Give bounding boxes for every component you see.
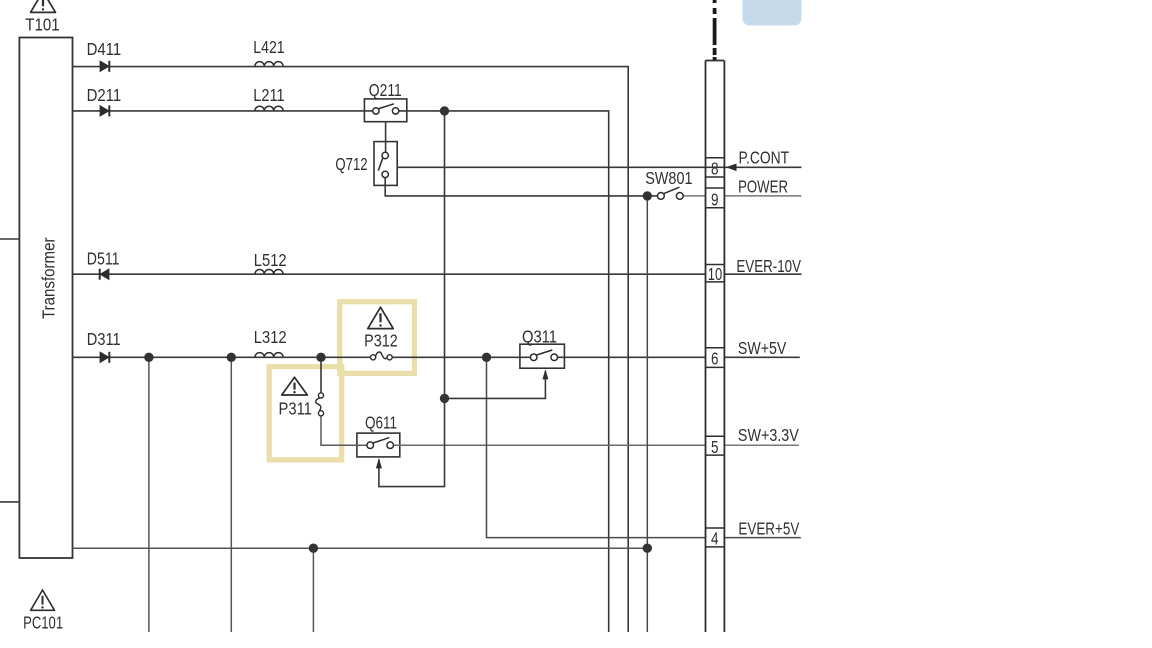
wire Q611 out to pin 5 bbox=[394, 444, 706, 446]
svg-text:4: 4 bbox=[711, 528, 719, 548]
svg-text:D211: D211 bbox=[87, 85, 122, 105]
pin 6 box bbox=[706, 347, 725, 349]
svg-text:10: 10 bbox=[708, 264, 723, 284]
svg-text:EVER+5V: EVER+5V bbox=[738, 519, 799, 539]
wire transformer bottom row bbox=[73, 547, 648, 549]
svg-text:8: 8 bbox=[711, 159, 719, 179]
inductor L421 bbox=[255, 62, 283, 67]
svg-text:P312: P312 bbox=[364, 330, 398, 350]
wire vertical below EVER+5V node bbox=[312, 548, 314, 632]
connector column bbox=[706, 61, 725, 633]
svg-text:L312: L312 bbox=[254, 327, 287, 347]
svg-text:SW801: SW801 bbox=[645, 168, 692, 188]
svg-text:POWER: POWER bbox=[738, 176, 788, 196]
wire Q311 out to pin 6 bbox=[557, 356, 705, 358]
arrow into Q311 bbox=[542, 369, 548, 379]
wire P311 elbow to Q611 bbox=[321, 416, 367, 445]
svg-text:Q712: Q712 bbox=[335, 154, 367, 174]
warning triangle above T101 bbox=[31, 0, 56, 12]
svg-text:PC101: PC101 bbox=[23, 612, 63, 632]
switch SW801 bbox=[658, 187, 684, 199]
switch contacts Q211 bbox=[373, 104, 399, 114]
junction dot SW+5V node bbox=[482, 353, 491, 362]
Q611 box bbox=[357, 433, 400, 457]
wire branch to Q311 gate bbox=[445, 371, 546, 398]
warning triangle PC101 bbox=[31, 590, 55, 610]
highlight box P312 bbox=[340, 302, 415, 374]
svg-text:P311: P311 bbox=[279, 398, 312, 418]
diode D211 bbox=[100, 105, 109, 116]
switch contacts Q611 bbox=[367, 438, 394, 449]
junction dot SW801 node bbox=[643, 191, 652, 200]
diode D311 bbox=[100, 352, 109, 363]
dashed bus above connector bbox=[713, 0, 717, 60]
diode D411 bbox=[100, 61, 109, 72]
wire SW801 to pin 9 bbox=[683, 195, 705, 197]
wire control bus from Q211 node down to Q611 gate bbox=[379, 111, 445, 487]
svg-text:L421: L421 bbox=[253, 37, 284, 57]
junction dot Q211 output node bbox=[440, 106, 449, 115]
arrow into Q611 bbox=[376, 458, 382, 468]
switch contacts Q712 bbox=[378, 152, 388, 177]
junction dot after L312 bbox=[316, 353, 325, 362]
wire vertical from D311 node A bbox=[148, 357, 150, 632]
wire SW+5V right of pin 6 bbox=[724, 356, 799, 358]
pin 9 box bbox=[706, 187, 725, 189]
wire left stub upper bbox=[0, 238, 19, 240]
transformer T101 body bbox=[19, 38, 72, 559]
wire vertical from D311 node B bbox=[230, 357, 232, 632]
highlight box P311 bbox=[269, 367, 342, 460]
svg-text:Q611: Q611 bbox=[365, 413, 397, 433]
junction dot node A bbox=[144, 353, 153, 362]
svg-text:Q211: Q211 bbox=[369, 80, 402, 100]
switch contacts Q311 bbox=[530, 350, 557, 361]
Q712 box bbox=[374, 142, 397, 186]
wire Q712 bottom elbow to SW801 bbox=[385, 178, 657, 196]
pin 8 box bbox=[706, 158, 725, 547]
svg-text:Q311: Q311 bbox=[522, 327, 557, 347]
wire fuse P312 to Q311 bbox=[392, 356, 530, 358]
svg-text:D311: D311 bbox=[87, 329, 121, 349]
svg-text:EVER-10V: EVER-10V bbox=[736, 256, 801, 276]
wire SW+5V tap down to EVER+5V pin 4 bbox=[487, 357, 706, 537]
inductor L312 bbox=[255, 353, 283, 358]
Q311 box bbox=[520, 344, 565, 368]
wire D411 row bbox=[73, 67, 629, 632]
svg-text:Transformer: Transformer bbox=[39, 237, 59, 319]
wire POWER right of pin 9 bbox=[724, 195, 801, 197]
pin 5 box bbox=[706, 435, 725, 437]
junction dot EVER+5V node bbox=[309, 544, 318, 553]
svg-text:5: 5 bbox=[711, 437, 719, 457]
inductor L512 bbox=[255, 270, 283, 275]
wire D211 row into Q211 bbox=[73, 110, 373, 112]
arrow into pin 8 bbox=[726, 164, 737, 172]
fuse P312 bbox=[371, 352, 393, 360]
inductor L211 bbox=[255, 106, 283, 111]
svg-text:P.CONT: P.CONT bbox=[739, 147, 790, 167]
pin 10 box bbox=[706, 264, 725, 266]
wire Q211 to Q712 bbox=[385, 122, 387, 153]
wire SW+3.3V right of pin 5 bbox=[724, 444, 798, 446]
svg-text:L211: L211 bbox=[253, 85, 284, 105]
svg-text:T101: T101 bbox=[25, 15, 59, 35]
pin 4 box bbox=[706, 527, 725, 529]
warning triangle P312 bbox=[368, 307, 393, 328]
svg-text:L512: L512 bbox=[254, 250, 287, 270]
junction dot end of bottom row bbox=[643, 544, 652, 553]
wire into fuse P311 bbox=[320, 357, 322, 393]
svg-text:D511: D511 bbox=[87, 249, 120, 269]
svg-text:SW+3.3V: SW+3.3V bbox=[738, 425, 799, 445]
junction dot node B bbox=[227, 353, 236, 362]
wire left stub lower bbox=[0, 501, 19, 503]
fuse P311 bbox=[316, 393, 324, 416]
wire EVER-10V right of pin 10 bbox=[724, 273, 801, 275]
svg-text:6: 6 bbox=[711, 349, 719, 369]
wire D311 / SW+5V row bbox=[73, 356, 371, 358]
wire EVER-10V row bbox=[73, 273, 706, 275]
diode D511 (reversed) bbox=[100, 269, 109, 280]
Q211 box bbox=[364, 99, 406, 122]
blue sticky note top right bbox=[743, 0, 802, 26]
wire EVER+5V right of pin 4 bbox=[724, 537, 800, 539]
svg-text:D411: D411 bbox=[87, 39, 122, 59]
junction dot control bus node bbox=[440, 394, 449, 403]
wire Q211 out bbox=[399, 111, 609, 632]
wire SW801 node down bbox=[646, 196, 648, 632]
svg-text:9: 9 bbox=[711, 190, 719, 210]
wire P.CONT row bbox=[397, 166, 801, 168]
warning triangle P311 bbox=[282, 377, 308, 395]
svg-text:SW+5V: SW+5V bbox=[738, 338, 787, 358]
